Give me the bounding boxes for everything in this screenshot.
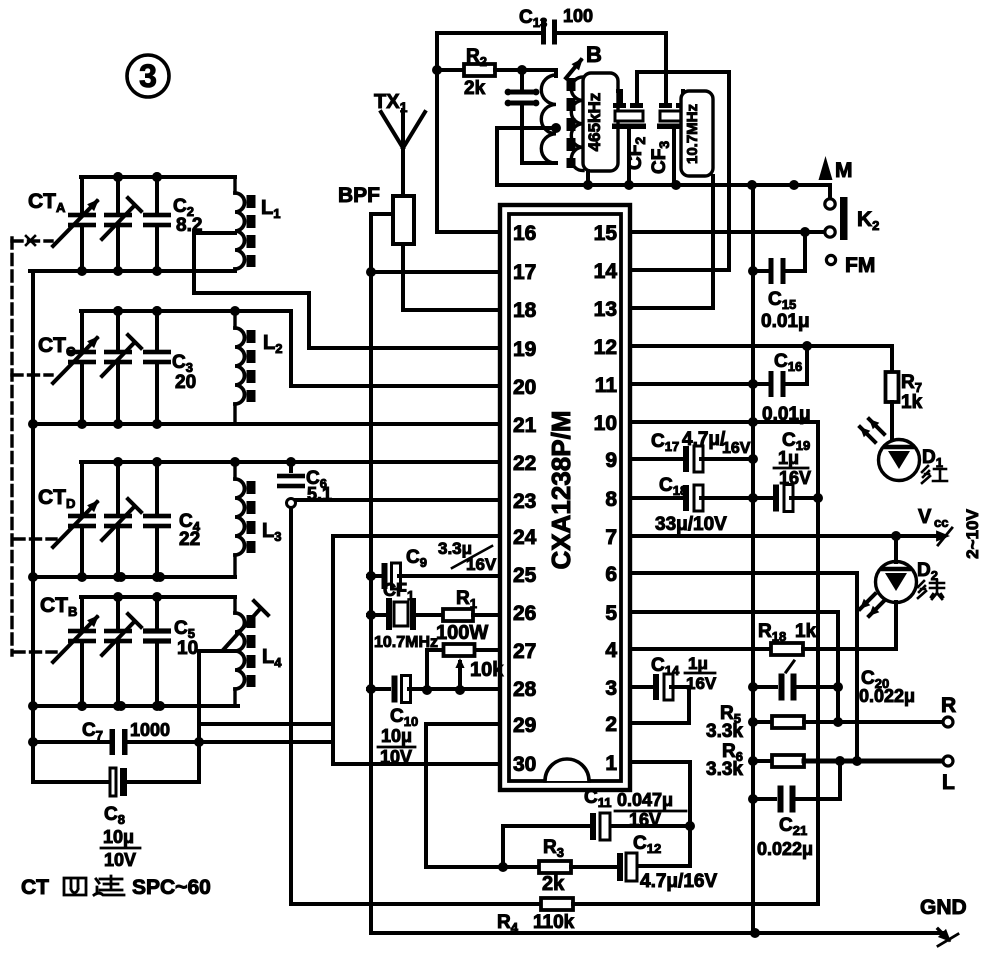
svg-text:29: 29 <box>513 714 536 737</box>
svg-text:10V: 10V <box>104 850 136 870</box>
svg-text:26: 26 <box>513 602 536 625</box>
svg-text:7: 7 <box>605 526 617 549</box>
svg-text:10V: 10V <box>380 747 412 767</box>
svg-text:V: V <box>918 506 932 528</box>
svg-text:100: 100 <box>563 6 593 26</box>
svg-text:4: 4 <box>605 639 617 662</box>
svg-text:10.7MHz: 10.7MHz <box>684 104 701 164</box>
svg-text:16V: 16V <box>779 468 811 488</box>
svg-text:28: 28 <box>513 678 537 701</box>
svg-text:B: B <box>586 42 602 67</box>
svg-text:10: 10 <box>594 412 617 435</box>
svg-text:0.022μ: 0.022μ <box>859 686 915 706</box>
svg-text:2~10V: 2~10V <box>963 509 982 559</box>
svg-text:17: 17 <box>513 261 536 284</box>
svg-text:GND: GND <box>920 896 967 919</box>
svg-text:21: 21 <box>513 414 537 437</box>
svg-text:10: 10 <box>177 638 198 659</box>
svg-text:465kHz: 465kHz <box>585 93 604 152</box>
svg-text:19: 19 <box>513 338 536 361</box>
svg-text:24: 24 <box>513 526 537 549</box>
svg-text:12: 12 <box>594 336 617 359</box>
svg-text:30: 30 <box>513 753 536 776</box>
svg-text:FM: FM <box>845 254 875 277</box>
svg-text:M: M <box>835 159 853 182</box>
svg-text:10μ: 10μ <box>381 726 412 746</box>
svg-text:1000: 1000 <box>130 720 170 740</box>
svg-text:14: 14 <box>594 260 618 283</box>
svg-text:20: 20 <box>175 372 196 393</box>
svg-text:23: 23 <box>513 490 536 513</box>
svg-text:25: 25 <box>513 564 537 587</box>
svg-text:15: 15 <box>594 222 618 245</box>
svg-text:3: 3 <box>139 58 157 94</box>
svg-text:3.3k: 3.3k <box>706 721 743 742</box>
svg-text:20: 20 <box>513 376 536 399</box>
svg-text:1μ: 1μ <box>778 448 799 468</box>
svg-text:9: 9 <box>605 449 617 472</box>
svg-text:1k: 1k <box>795 621 817 642</box>
svg-text:R: R <box>941 694 956 717</box>
svg-text:2: 2 <box>605 713 617 736</box>
svg-text:16V: 16V <box>466 555 497 574</box>
svg-text:0.022μ: 0.022μ <box>757 839 813 859</box>
svg-text:L: L <box>942 771 955 794</box>
svg-text:11: 11 <box>595 374 618 397</box>
svg-text:1k: 1k <box>901 392 923 413</box>
svg-text:100W: 100W <box>436 622 488 644</box>
svg-text:CXA1238P/M: CXA1238P/M <box>546 411 576 570</box>
svg-text:1μ: 1μ <box>688 654 708 673</box>
svg-text:18: 18 <box>513 299 537 322</box>
svg-text:4.7μ/: 4.7μ/ <box>682 429 726 450</box>
svg-text:22: 22 <box>179 529 200 550</box>
svg-text:16V: 16V <box>722 440 751 457</box>
svg-text:16V: 16V <box>686 674 717 693</box>
svg-text:0.01μ: 0.01μ <box>761 311 810 332</box>
svg-text:SPC~60: SPC~60 <box>132 876 211 899</box>
svg-text:22: 22 <box>513 452 536 475</box>
svg-text:33μ/10V: 33μ/10V <box>655 514 727 535</box>
svg-text:CT: CT <box>21 876 49 899</box>
svg-text:cc: cc <box>934 515 948 530</box>
svg-text:2k: 2k <box>542 873 565 895</box>
svg-text:16V: 16V <box>629 810 661 830</box>
svg-text:4.7μ/16V: 4.7μ/16V <box>640 871 717 892</box>
svg-text:8: 8 <box>605 488 617 511</box>
svg-text:BPF: BPF <box>338 184 380 207</box>
svg-text:3.3k: 3.3k <box>706 759 743 780</box>
svg-text:2k: 2k <box>464 78 486 99</box>
svg-text:6: 6 <box>605 563 617 586</box>
svg-text:5: 5 <box>605 602 617 625</box>
svg-text:10μ: 10μ <box>103 827 134 847</box>
svg-text:110k: 110k <box>533 912 575 933</box>
svg-text:0.047μ: 0.047μ <box>617 790 673 810</box>
svg-text:13: 13 <box>594 298 617 321</box>
svg-text:3: 3 <box>605 677 617 700</box>
svg-text:10k: 10k <box>470 659 504 681</box>
svg-text:27: 27 <box>513 640 536 663</box>
svg-text:16: 16 <box>513 222 536 245</box>
svg-text:1: 1 <box>605 752 617 775</box>
